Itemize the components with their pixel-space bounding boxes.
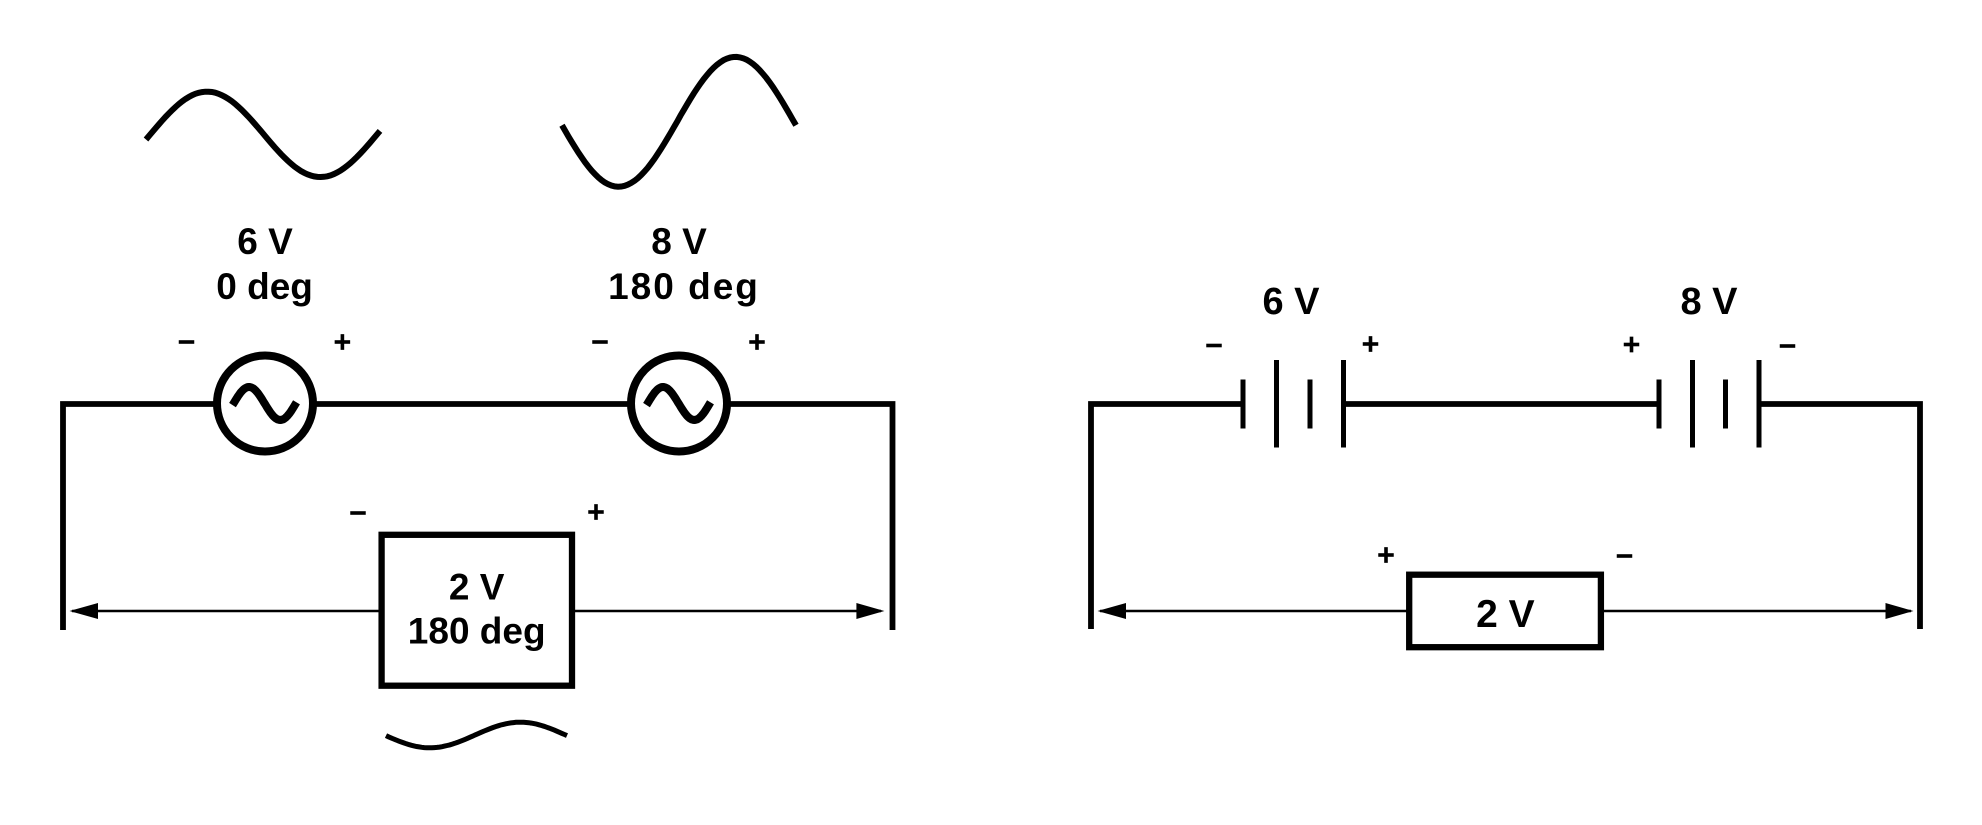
svg-text:8 V: 8 V xyxy=(1680,281,1738,323)
svg-text:2 V: 2 V xyxy=(1476,593,1535,636)
svg-text:180 deg: 180 deg xyxy=(408,611,546,652)
svg-text:0 deg: 0 deg xyxy=(216,266,313,307)
svg-text:6 V: 6 V xyxy=(237,221,293,262)
svg-text:180 deg: 180 deg xyxy=(608,266,760,307)
svg-text:6 V: 6 V xyxy=(1262,281,1320,323)
svg-text:8 V: 8 V xyxy=(651,221,707,262)
svg-text:2 V: 2 V xyxy=(449,567,505,608)
